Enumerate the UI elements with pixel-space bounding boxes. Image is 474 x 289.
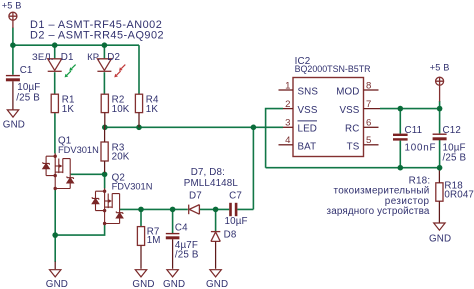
wire C11 top lead bbox=[399, 109, 401, 134]
transistor Q2 FDV301N bbox=[92, 188, 123, 225]
wire D2 anode lead bbox=[103, 45, 105, 58]
wire D1 anode lead bbox=[54, 45, 56, 58]
capacitor C1 (polarized) bbox=[6, 76, 20, 110]
svg-text:20K: 20K bbox=[112, 152, 130, 163]
IC2 pin stubs bbox=[279, 90, 381, 145]
svg-text:/25 В: /25 В bbox=[175, 250, 199, 261]
svg-text:8: 8 bbox=[366, 80, 371, 91]
node D8 tap bbox=[213, 207, 219, 213]
svg-text:+5 В: +5 В bbox=[2, 0, 22, 10]
svg-text:КР.: КР. bbox=[87, 52, 100, 63]
svg-text:BQ2000TSN-B5TR: BQ2000TSN-B5TR bbox=[295, 64, 371, 74]
ground (C4) bbox=[167, 270, 178, 277]
diode D7 bbox=[189, 205, 200, 215]
power +5V symbol left bbox=[9, 12, 17, 28]
pin 4 stub bbox=[279, 144, 294, 146]
pin 6 stub bbox=[364, 126, 379, 128]
svg-text:SNS: SNS bbox=[298, 87, 319, 98]
wire C12 top lead bbox=[439, 109, 441, 134]
svg-text:ЗЕЛ.: ЗЕЛ. bbox=[32, 52, 54, 63]
svg-text:3: 3 bbox=[285, 117, 290, 128]
transistor Q1 FDV301N bbox=[43, 153, 74, 190]
node D1 tap on rail bbox=[52, 42, 58, 48]
svg-text:GND: GND bbox=[429, 233, 451, 244]
svg-text:2: 2 bbox=[285, 99, 290, 110]
pin 8 stub bbox=[364, 89, 379, 91]
pin 7 stub bbox=[364, 108, 381, 110]
wire net LED: R2 bottom junction to IC pin3 bbox=[105, 126, 283, 128]
svg-text:VSS: VSS bbox=[339, 105, 359, 116]
pin 3 stub bbox=[283, 126, 293, 128]
node R2/R3/LED-net junction bbox=[102, 125, 108, 131]
svg-text:FDV301N: FDV301N bbox=[58, 145, 99, 155]
resistor R18 bbox=[436, 183, 443, 201]
wire R7 top lead bbox=[140, 209, 142, 226]
wire R4 top lead bbox=[138, 45, 140, 94]
svg-text:D1: D1 bbox=[61, 52, 74, 63]
wire top +5V rail bbox=[13, 44, 139, 46]
svg-text:C7: C7 bbox=[229, 191, 242, 202]
svg-text:C4: C4 bbox=[175, 223, 188, 234]
ground (D8) bbox=[210, 270, 221, 277]
svg-text:100nF: 100nF bbox=[405, 142, 437, 153]
resistor R7 bbox=[137, 227, 144, 246]
svg-text:C1: C1 bbox=[20, 65, 33, 76]
node C12/+5V top tap bbox=[437, 106, 443, 112]
svg-text:10µF: 10µF bbox=[17, 82, 40, 93]
svg-text:/25 В: /25 В bbox=[443, 153, 467, 164]
svg-text:1K: 1K bbox=[62, 104, 75, 115]
wire IC pin7 to +5V rail right bbox=[380, 108, 440, 110]
pin 5 stub bbox=[364, 144, 379, 146]
wire C11 bottom lead bbox=[399, 141, 401, 168]
wire R7 bottom lead (red) bbox=[140, 245, 142, 268]
svg-text:10µF: 10µF bbox=[225, 216, 248, 227]
wire R18 top lead bbox=[439, 168, 441, 171]
svg-text:/25 В: /25 В bbox=[16, 92, 40, 103]
svg-text:RC: RC bbox=[345, 124, 359, 135]
wire C4 top lead bbox=[172, 209, 174, 233]
node R3/Q1-drain/Q2-gate junction bbox=[102, 172, 108, 178]
node D2 tap on rail bbox=[102, 42, 108, 48]
wire +5V left vertical drop bbox=[12, 28, 14, 46]
wire node line Q2 drain to D7 anode bbox=[119, 208, 188, 210]
svg-text:GND: GND bbox=[163, 279, 185, 289]
pin 2 stub bbox=[283, 108, 293, 110]
wire R18 top lead (red) bbox=[438, 171, 440, 183]
pin 1 stub bbox=[279, 89, 294, 91]
LED D1 (green) bbox=[48, 59, 62, 72]
ground (R18) bbox=[434, 223, 445, 230]
svg-text:D2: D2 bbox=[107, 52, 120, 63]
wire D7 cathode side to C7 bbox=[200, 208, 230, 210]
svg-text:GND: GND bbox=[3, 120, 25, 131]
wire +5V right drop bbox=[439, 101, 441, 109]
capacitor C12 (polarized) bbox=[433, 134, 447, 139]
capacitor C11 bbox=[393, 135, 408, 140]
svg-text:MOD: MOD bbox=[336, 87, 359, 98]
wire Q1 drain to Q2 gate junction bbox=[71, 173, 105, 175]
svg-text:4: 4 bbox=[285, 135, 291, 146]
wire R2 bottom lead (red) bbox=[104, 113, 106, 128]
node C12/R18 bottom tap bbox=[437, 165, 443, 171]
resistor R1 bbox=[51, 94, 58, 112]
LED D2 arrows bbox=[114, 65, 125, 78]
svg-text:+5 В: +5 В bbox=[430, 63, 450, 73]
svg-text:D7: D7 bbox=[189, 191, 202, 202]
wire IC pin2 to left loop bbox=[266, 109, 283, 168]
wire D2 cathode to R2 bbox=[103, 72, 105, 94]
node riser junction on LED net bbox=[251, 125, 257, 131]
node +5V/C1 junction bbox=[10, 42, 16, 48]
pin name LED overline bbox=[298, 120, 318, 122]
wire D1 cathode to R1 bbox=[54, 72, 56, 94]
wire riser up to LED net bbox=[252, 127, 254, 209]
power +5V symbol right bbox=[436, 77, 444, 101]
node C11 top tap bbox=[398, 106, 404, 112]
svg-text:D8: D8 bbox=[224, 230, 237, 241]
node C4 tap bbox=[170, 207, 176, 213]
svg-text:C12: C12 bbox=[443, 125, 461, 136]
svg-text:D7, D8:: D7, D8: bbox=[191, 167, 225, 178]
svg-text:C11: C11 bbox=[405, 125, 423, 136]
resistor R4 bbox=[135, 94, 142, 112]
wire C1 top lead bbox=[12, 45, 14, 75]
wire R3 bottom to Q2 gate junction bbox=[104, 172, 106, 189]
capacitor C7 bbox=[231, 203, 237, 216]
svg-text:GND: GND bbox=[206, 279, 228, 289]
svg-text:1: 1 bbox=[285, 80, 290, 91]
svg-text:GND: GND bbox=[132, 279, 154, 289]
svg-text:1M: 1M bbox=[147, 235, 161, 246]
wire R3 bottom lead (red) bbox=[104, 161, 106, 173]
node R4 bottom junction bbox=[136, 125, 142, 131]
ground (Q1/Q2 sources) bbox=[50, 270, 61, 277]
resistor R2 bbox=[101, 94, 108, 112]
wire Q2 source down and left bbox=[55, 225, 104, 236]
ground (C1) bbox=[7, 110, 18, 117]
svg-text:10K: 10K bbox=[112, 104, 130, 115]
diode D8 bbox=[211, 232, 220, 269]
node R7 tap bbox=[138, 207, 144, 213]
svg-text:1K: 1K bbox=[146, 104, 159, 115]
wire source GND lead (red) bbox=[54, 262, 56, 270]
capacitor C4 (polarized) bbox=[166, 234, 180, 269]
svg-text:PMLL4148L: PMLL4148L bbox=[184, 178, 239, 189]
svg-text:7: 7 bbox=[366, 99, 371, 110]
wire C7 right to vertical riser bbox=[237, 208, 253, 210]
op-amp/IC U: IC2 BQ2000TSN-B5TR box bbox=[293, 78, 364, 157]
wire R18 bottom lead (red) bbox=[438, 201, 440, 222]
svg-text:BAT: BAT bbox=[298, 141, 317, 152]
svg-text:FDV301N: FDV301N bbox=[112, 181, 153, 191]
wire C12 bottom lead bbox=[439, 140, 441, 168]
svg-text:6: 6 bbox=[366, 117, 371, 128]
LED D1 arrows bbox=[65, 65, 76, 78]
svg-text:0R047: 0R047 bbox=[444, 190, 474, 201]
svg-text:D2 – ASMT-RR45-AQ902: D2 – ASMT-RR45-AQ902 bbox=[30, 30, 164, 42]
node C11 bottom tap bbox=[398, 165, 404, 171]
wire R1 bottom to Q1 gate bbox=[54, 113, 56, 154]
resistor R3 bbox=[101, 142, 108, 161]
svg-text:LED: LED bbox=[298, 124, 318, 135]
svg-text:TS: TS bbox=[347, 141, 360, 152]
wire R4 bottom lead (red) bbox=[138, 113, 140, 128]
wire R3 top lead (red) bbox=[104, 127, 106, 142]
svg-text:GND: GND bbox=[46, 279, 68, 289]
LED D2 (red) bbox=[97, 59, 111, 72]
wire D8 top lead bbox=[215, 209, 217, 231]
wire common source to GND bbox=[54, 235, 56, 262]
svg-text:5: 5 bbox=[366, 135, 371, 146]
svg-text:VSS: VSS bbox=[298, 105, 318, 116]
node common source junction bbox=[52, 232, 58, 238]
wire bottom VSS rail bbox=[266, 167, 440, 169]
wire Q1 source down bbox=[54, 190, 56, 236]
svg-text:зарядного устройства: зарядного устройства bbox=[327, 206, 430, 217]
ground (R7) bbox=[135, 270, 146, 277]
